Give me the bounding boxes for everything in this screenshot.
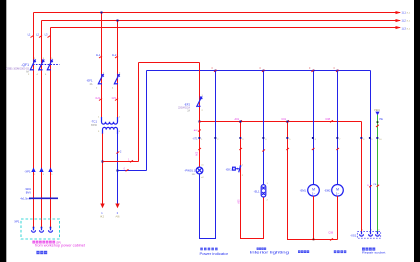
svg-text:A01: A01 xyxy=(235,118,240,121)
motor ticks xyxy=(312,148,339,150)
wire phase B vertical xyxy=(41,21,43,228)
left black border bar xyxy=(0,0,6,262)
svg-text:BVV: BVV xyxy=(26,191,31,195)
switch EK1 xyxy=(239,165,242,172)
switch circuit live wire xyxy=(241,122,264,239)
svg-text:220VAC/2A: 220VAC/2A xyxy=(178,107,190,110)
fuse EF2 xyxy=(197,97,203,108)
svg-text:-EM1: -EM1 xyxy=(300,189,307,193)
svg-text:XP1: XP1 xyxy=(14,220,20,224)
motor M2 return wire xyxy=(337,196,339,240)
svg-text:1L1: 1L1 xyxy=(96,53,101,57)
node neutral junction M1 xyxy=(313,70,315,72)
svg-text:-PW01.1: -PW01.1 xyxy=(184,168,195,172)
socket neutral wire xyxy=(370,71,372,232)
svg-text:C01: C01 xyxy=(281,118,286,121)
lamp branch red wire xyxy=(199,122,201,168)
terminal XT:2 xyxy=(214,137,216,139)
caption interior lighting chinese xyxy=(257,248,259,250)
node neutral junction lamp xyxy=(215,70,217,72)
motor M2 feed wire xyxy=(337,71,339,185)
wire secondary left branch horizontal xyxy=(103,161,139,163)
terminal XT:3 xyxy=(239,137,241,139)
wire tick label 2 xyxy=(116,152,119,154)
terminal strip row xyxy=(198,137,378,139)
tap wire 1L1 vertical xyxy=(101,13,103,118)
terminal XT:1 xyxy=(198,137,200,139)
node fan rail M1 xyxy=(313,239,315,241)
svg-text:1~: 1~ xyxy=(336,191,340,195)
motor M1 feed wire xyxy=(313,71,315,185)
transformer TC1 secondary winding xyxy=(103,127,118,134)
svg-text:A02: A02 xyxy=(196,151,199,156)
EL branch label tick xyxy=(239,148,242,150)
breaker QF1 linkage dashed xyxy=(33,64,60,66)
wire phase C vertical xyxy=(50,28,52,228)
caption fan chinese xyxy=(298,250,301,253)
svg-text:BK50: BK50 xyxy=(91,124,98,127)
bus L2 arrow xyxy=(396,19,402,22)
indicator lamp PW01.1 xyxy=(196,167,203,174)
fluorescent lamp EL1 xyxy=(261,185,266,197)
caption power indicator chinese xyxy=(200,248,203,251)
node neutral junction EL xyxy=(263,70,265,72)
terminal XT:5 xyxy=(286,137,288,139)
socket pole 3 xyxy=(49,227,53,233)
terminal XT:9 xyxy=(369,137,371,139)
socket XS1 pole L xyxy=(360,232,364,237)
plug XP1 arrow pole 2 xyxy=(39,168,43,173)
right black border bar xyxy=(414,0,420,262)
lamp return wire blue xyxy=(200,71,216,239)
bus line L2 xyxy=(42,20,401,22)
svg-text:1~: 1~ xyxy=(312,191,316,195)
wire phase A vertical xyxy=(33,13,35,228)
transformer TC1 pins xyxy=(98,117,121,134)
terminal XT:10 xyxy=(376,137,378,139)
sheet arrow right xyxy=(115,204,119,209)
motor M2 xyxy=(332,185,344,197)
EL1 pins xyxy=(267,183,269,202)
wire riser red xyxy=(138,63,140,162)
socket live wire xyxy=(361,122,363,232)
secondary right wire down xyxy=(117,134,119,204)
tap wire 1L2 vertical xyxy=(117,21,119,118)
fuse EF1 pins xyxy=(96,73,121,90)
socket pole 2 xyxy=(40,227,44,233)
svg-text:Repair socket: Repair socket xyxy=(362,251,386,255)
svg-text:-W01: -W01 xyxy=(25,187,32,191)
svg-text:-XS1: -XS1 xyxy=(350,233,357,237)
wire fused feeder vertical xyxy=(199,63,201,122)
bus L3 arrow xyxy=(396,26,402,29)
plug pin marks xyxy=(34,174,53,176)
node secondary left branch xyxy=(102,161,104,163)
PE node xyxy=(377,121,379,123)
node tap 1L1 xyxy=(101,12,103,14)
svg-text:6A: 6A xyxy=(26,71,29,74)
svg-text:Interior lighting: Interior lighting xyxy=(250,251,290,255)
switch EK1 pins xyxy=(242,164,244,177)
svg-text:-QF1: -QF1 xyxy=(21,63,29,67)
svg-text:-EM2: -EM2 xyxy=(324,189,331,193)
main circuit caption xyxy=(36,251,39,254)
secondary left wire down xyxy=(102,134,104,204)
svg-text:-XT1: -XT1 xyxy=(192,137,198,140)
switch EK1 handle xyxy=(233,167,241,170)
bus line L1 xyxy=(34,12,401,14)
svg-text:-TC1: -TC1 xyxy=(91,120,98,124)
wire label 0 on branch xyxy=(126,169,129,171)
terminal XT:4 xyxy=(262,137,264,139)
breaker QF1 pole 2 xyxy=(39,60,45,71)
terminal tags xyxy=(201,139,382,141)
svg-text:-EL1: -EL1 xyxy=(254,189,260,193)
node tap 1L2 xyxy=(117,20,119,22)
socket XS1 pole PE xyxy=(376,232,380,237)
motor M1 return wire xyxy=(313,196,315,240)
svg-text:PE: PE xyxy=(379,117,383,121)
EL1 wire blue upper xyxy=(263,71,265,185)
breaker QF1 pole 3 xyxy=(47,60,53,71)
wire label 1 on branch xyxy=(130,160,133,162)
svg-text:-EF2: -EF2 xyxy=(184,102,191,106)
PE wire green xyxy=(377,115,379,232)
bus L1 arrow xyxy=(396,11,402,14)
control rail red horizontal xyxy=(200,121,362,123)
motor M1 xyxy=(308,185,320,197)
svg-text:Power indicator: Power indicator xyxy=(200,252,230,256)
socket XS1 box dashed xyxy=(357,232,380,239)
PE arrow xyxy=(375,112,379,116)
plug XP1 arrow pole 3 xyxy=(48,168,52,173)
node feeder junction xyxy=(199,121,201,123)
fuse EF2 pins xyxy=(202,95,204,112)
socket pin ticks xyxy=(362,230,380,232)
caption lamp lighting chinese xyxy=(334,250,337,253)
fuse EF1 pole 1 xyxy=(98,74,104,85)
svg-text:-XP1: -XP1 xyxy=(24,169,31,173)
node neutral junction M2 xyxy=(337,70,339,72)
lamp branch label xyxy=(198,148,201,150)
fuse EF1 pole 2 xyxy=(114,74,120,85)
node secondary right branch xyxy=(117,170,119,172)
fan circuit live wire xyxy=(288,122,338,240)
terminal XT:6 xyxy=(312,137,314,139)
sheet arrow left xyxy=(100,204,104,209)
EL1 tick xyxy=(262,150,265,152)
wire riser blue xyxy=(146,71,148,171)
node rail junction EK xyxy=(240,121,242,123)
svg-text:-EK1: -EK1 xyxy=(226,167,233,171)
source note chinese xyxy=(32,241,35,244)
node rail junction fan xyxy=(287,121,289,123)
breaker QF1 pole 1 xyxy=(30,60,36,71)
svg-text:from workshop power cabinet: from workshop power cabinet xyxy=(35,243,85,247)
wire secondary right branch horizontal xyxy=(118,170,147,172)
svg-text:C08: C08 xyxy=(328,232,333,235)
bus line L3 xyxy=(51,27,401,29)
svg-text:2A: 2A xyxy=(90,83,93,86)
svg-text:2A: 2A xyxy=(187,110,190,113)
caption repair socket chinese xyxy=(362,248,365,251)
terminal box XP1 dashed xyxy=(21,219,60,239)
svg-text:C08: C08 xyxy=(325,118,330,121)
cable W01 thick line xyxy=(29,197,58,199)
feeder bus blue horizontal xyxy=(147,70,371,72)
breaker QF1 pin numbers xyxy=(28,58,53,76)
svg-text:1L2: 1L2 xyxy=(112,53,117,57)
transformer TC1 primary winding xyxy=(102,117,118,124)
socket XS1 pole N xyxy=(369,232,373,237)
feeder bus red horizontal xyxy=(139,62,200,64)
PE tick xyxy=(376,125,379,127)
terminal XT:8 xyxy=(360,137,362,139)
socket pole 1 xyxy=(32,227,36,233)
plug XP1 arrow pole 1 xyxy=(31,168,35,173)
terminal XT:7 xyxy=(336,137,338,139)
lamp pins xyxy=(201,165,204,179)
wire tick A02 upper xyxy=(198,130,201,132)
svg-text:A05: A05 xyxy=(237,199,240,204)
fan live tick xyxy=(286,148,289,150)
